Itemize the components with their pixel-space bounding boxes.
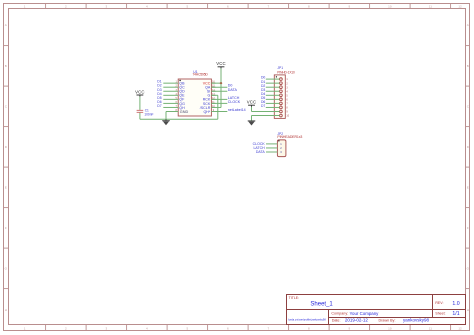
wire net D6 to JP1 pin 7 <box>266 102 280 104</box>
ground symbol under U1 <box>162 119 170 125</box>
wire VCC to C1 top <box>139 97 141 110</box>
svg-text:VCC: VCC <box>216 61 226 66</box>
JP1 pin 4 circle <box>280 90 283 93</box>
U1 right pin stub 14 <box>211 90 215 92</box>
svg-text:6: 6 <box>286 98 288 101</box>
svg-text:1/1: 1/1 <box>452 311 459 317</box>
wire U1 SI to DATA label <box>211 90 227 92</box>
U1 right pin stub 13 <box>211 94 215 96</box>
JP1 pin 2 circle <box>280 82 283 85</box>
wire net D6 to U1 pin 6 <box>163 102 178 104</box>
ground symbol near JP1 <box>248 121 256 126</box>
svg-text:Your Company: Your Company <box>350 311 380 316</box>
wire U1 QA to D0 label <box>211 86 227 88</box>
svg-text:D7: D7 <box>261 104 265 108</box>
wire U1 GND pin to ground rail <box>166 112 178 120</box>
svg-text:7: 7 <box>268 4 270 8</box>
wire U1 SCK to CLOCK label <box>211 102 227 104</box>
svg-text:H: H <box>467 308 469 312</box>
svg-text:3: 3 <box>286 86 288 89</box>
JP1 pin 3 circle <box>280 86 283 89</box>
JP1 pin 7 circle <box>280 102 283 105</box>
U1 right pin stub 10 <box>211 106 215 108</box>
wire net LATCH to JP2 pin 2 <box>266 147 277 149</box>
svg-text:DATA: DATA <box>228 88 238 92</box>
wire net D5 to U1 pin 5 <box>163 98 178 100</box>
svg-text:4: 4 <box>146 4 148 8</box>
capacitor C1 plates <box>137 110 144 112</box>
wire net D7 to JP1 pin 8 <box>266 106 280 108</box>
svg-text:9: 9 <box>286 111 288 114</box>
svg-text:F: F <box>5 226 7 230</box>
svg-text:F: F <box>467 226 469 230</box>
svg-text:B: B <box>467 64 469 68</box>
connector JP1 body PINHD-1X10 <box>274 75 285 119</box>
svg-text:5: 5 <box>286 94 288 97</box>
U1 right pin stub 12 <box>211 98 215 100</box>
JP1 pin 5 circle <box>280 94 283 97</box>
JP1 pin 9 circle <box>280 110 283 113</box>
wire VCC riser <box>220 68 222 107</box>
wire U1 VCC pin to VCC net <box>211 82 221 84</box>
svg-text:5: 5 <box>187 4 189 8</box>
svg-text:PINHD-1X10: PINHD-1X10 <box>277 70 295 74</box>
wire net D2 to JP1 pin 3 <box>266 86 280 88</box>
wire U1 RCK to LATCH label <box>211 98 227 100</box>
wire U1 QH* to netLabel14 <box>211 111 227 113</box>
wire net DATA to JP2 pin 3 <box>266 151 277 153</box>
svg-text:1: 1 <box>286 78 288 81</box>
wire U1 G (OE) to ground rail <box>211 95 217 119</box>
power VCC symbol above C1 <box>135 89 145 96</box>
wire net D4 to U1 pin 4 <box>163 94 178 96</box>
svg-text:6: 6 <box>227 4 229 8</box>
svg-text:E: E <box>5 186 7 190</box>
svg-text:PINHEADER1x3: PINHEADER1x3 <box>277 135 302 139</box>
wire net D7 to U1 pin 7 <box>163 106 178 108</box>
svg-text:Drawn By:: Drawn By: <box>379 318 396 322</box>
svg-text:QH*: QH* <box>204 110 211 114</box>
svg-text:D7: D7 <box>157 104 161 108</box>
svg-text:4: 4 <box>286 90 288 93</box>
wire VCC to JP1 pin 9 <box>252 107 280 112</box>
wire net CLOCK to JP2 pin 1 <box>266 143 277 145</box>
svg-text:netLabel14: netLabel14 <box>228 108 246 112</box>
svg-text:1.0: 1.0 <box>452 301 459 307</box>
svg-text:JP1: JP1 <box>277 66 283 70</box>
JP1 pin 1 circle <box>280 78 283 81</box>
wire ground rail <box>140 118 218 120</box>
svg-text:G: G <box>5 267 8 271</box>
svg-text:74HC595D: 74HC595D <box>193 73 209 77</box>
svg-text:2: 2 <box>286 82 288 85</box>
svg-text:8: 8 <box>286 107 288 110</box>
wire net D4 to JP1 pin 5 <box>266 94 280 96</box>
svg-text:10: 10 <box>388 327 392 331</box>
svg-text:VCC: VCC <box>135 89 145 94</box>
svg-text:10: 10 <box>388 4 392 8</box>
svg-text:2019-02-12: 2019-02-12 <box>345 318 369 323</box>
wire net D0 to JP1 pin 1 <box>266 78 280 80</box>
wire U1 /SCLR to VCC riser <box>211 106 221 108</box>
svg-text:REV:: REV: <box>435 301 443 305</box>
U1 right pin stub 15 <box>211 86 215 88</box>
junction dot VCC <box>220 82 222 84</box>
wire net D3 to JP1 pin 4 <box>266 90 280 92</box>
svg-text:12: 12 <box>458 327 462 331</box>
wire net D1 to U1 pin 1 <box>163 82 178 84</box>
svg-text:Sheet_1: Sheet_1 <box>310 301 333 307</box>
wire net D1 to JP1 pin 2 <box>266 82 280 84</box>
svg-text:H: H <box>5 308 7 312</box>
svg-text:E: E <box>467 186 469 190</box>
svg-text:A: A <box>5 23 7 27</box>
svg-text:GND: GND <box>180 110 189 114</box>
JP1 pin 6 circle <box>280 98 283 101</box>
svg-text:Date:: Date: <box>332 318 341 322</box>
svg-text:C: C <box>5 105 8 109</box>
svg-text:B: B <box>5 64 7 68</box>
svg-text:1: 1 <box>24 4 26 8</box>
wire net D2 to U1 pin 2 <box>163 86 178 88</box>
svg-text:2: 2 <box>65 4 67 8</box>
wire net D5 to JP1 pin 6 <box>266 98 280 100</box>
JP1 pin 8 circle <box>280 106 283 109</box>
wire C1 bottom to ground rail <box>139 113 141 120</box>
svg-text:Sheet:: Sheet: <box>435 312 445 316</box>
svg-text:11: 11 <box>429 327 432 331</box>
svg-text:8: 8 <box>308 4 310 8</box>
svg-text:TITLE:: TITLE: <box>289 296 300 300</box>
JP1 pin 10 circle <box>280 114 283 117</box>
wire net D3 to U1 pin 3 <box>163 90 178 92</box>
svg-text:D: D <box>5 145 8 149</box>
power VCC symbol above U1 <box>216 61 226 68</box>
svg-text:10: 10 <box>286 115 289 118</box>
svg-text:9: 9 <box>349 4 351 8</box>
svg-text:100nF: 100nF <box>144 113 153 117</box>
svg-text:VCC: VCC <box>247 100 257 105</box>
svg-text:Company:: Company: <box>331 312 348 316</box>
U1 right pin stub 11 <box>211 102 215 104</box>
svg-text:DATA: DATA <box>256 150 265 154</box>
svg-text:12: 12 <box>458 4 462 8</box>
svg-text:7: 7 <box>286 103 288 106</box>
U1 right pin stub 16 <box>211 82 215 84</box>
svg-text:3: 3 <box>106 4 108 8</box>
connector JP2 body PINHEADER1x3 <box>277 140 286 157</box>
power VCC symbol near JP1 <box>247 100 257 107</box>
op-amp U1 body (74HC595D shift register) <box>178 79 211 116</box>
svg-text:11: 11 <box>429 4 432 8</box>
svg-text:CLOCK: CLOCK <box>228 100 241 104</box>
U1 right pin stub 9 <box>211 111 215 113</box>
svg-text:A: A <box>467 23 469 27</box>
wire JP1 pin 10 to ground <box>252 116 280 121</box>
svg-text:yankovsky98: yankovsky98 <box>403 318 430 323</box>
svg-text:lceda.cn/user/profile/yankovsk: lceda.cn/user/profile/yankovsky98 <box>288 318 326 321</box>
